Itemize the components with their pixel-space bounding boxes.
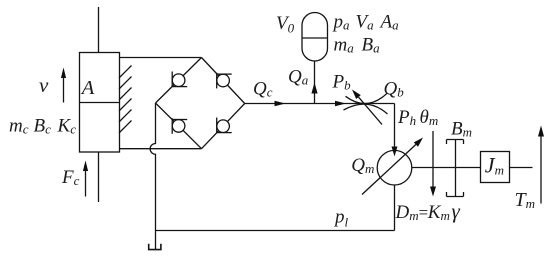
svg-text:Qm: Qm (351, 155, 374, 176)
variable displacement arrow (362, 144, 416, 194)
accumulator divider (302, 37, 328, 39)
check valve V3 (bottom-left) (172, 120, 185, 133)
flow arrow Qc (275, 101, 286, 106)
torque arrow Tm (540, 135, 542, 204)
wall hatching (119, 66, 132, 134)
Dm arrow (displacement) (432, 131, 434, 189)
cylinder body (80, 53, 120, 153)
svg-text:v: v (39, 73, 49, 97)
damper Bm (447, 140, 464, 197)
piston rod (98, 7, 100, 202)
svg-text:Pb: Pb (332, 72, 352, 93)
check valve V1 (top-left) (172, 74, 185, 87)
bridge diamond sides (156, 58, 245, 149)
wire: throttle corner down to motor (394, 104, 396, 150)
wire: cylinder bottom to bridge bottom (120, 148, 202, 150)
tank (155, 231, 157, 250)
svg-text:mcBcKc: mcBcKc (9, 115, 76, 136)
piston (80, 102, 120, 104)
svg-text:paVaAa: paVaAa (332, 12, 400, 33)
main pressure line (245, 103, 395, 105)
svg-text:Qa: Qa (288, 67, 309, 88)
svg-text:Dm=Kmγ: Dm=Kmγ (395, 199, 461, 223)
svg-text:Qb: Qb (384, 79, 405, 100)
check valve V2 (top-right) (217, 74, 230, 87)
svg-text:pl: pl (333, 207, 349, 230)
motor M (377, 150, 412, 185)
svg-text:maBa: maBa (334, 34, 381, 55)
svg-text:Qc: Qc (253, 79, 273, 100)
accumulator (302, 13, 328, 62)
flow arrow Pb (335, 101, 346, 106)
throttle valve arcs (346, 93, 388, 103)
svg-text:Tm: Tm (515, 189, 536, 211)
flow arrow Qa (311, 83, 317, 94)
motor drain to return line (394, 185, 396, 231)
wire: bridge left corner down with hop over bottom wire (150, 103, 155, 231)
velocity arrow V (63, 77, 65, 103)
shaft (412, 167, 481, 169)
wire: cylinder top to bridge top (120, 57, 202, 59)
check valve V4 (bottom-right) (217, 120, 230, 133)
throttle adjust arrow (359, 97, 383, 124)
inertia Jm box (481, 152, 510, 183)
svg-text:Bm: Bm (451, 118, 472, 139)
bottom return line p_l (156, 230, 395, 232)
svg-text:V0: V0 (276, 13, 295, 36)
svg-text:A: A (80, 77, 95, 99)
accumulator stem (314, 61, 316, 104)
svg-text:Fc: Fc (61, 167, 80, 188)
inlet arrow into motor (392, 147, 398, 157)
svg-text:Phθm: Phθm (397, 107, 438, 128)
force arrow Fc (85, 170, 87, 197)
